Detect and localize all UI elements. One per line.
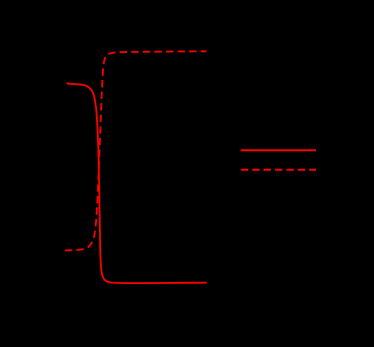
legend dashed line sample <box>241 169 316 171</box>
legend solid line sample <box>241 149 316 151</box>
solid red curve y1(t): high-left plateau, steep drop, low plateau <box>67 83 206 283</box>
dashed red curve y2(t): low-left plateau, steep rise, high plateau <box>65 51 207 250</box>
